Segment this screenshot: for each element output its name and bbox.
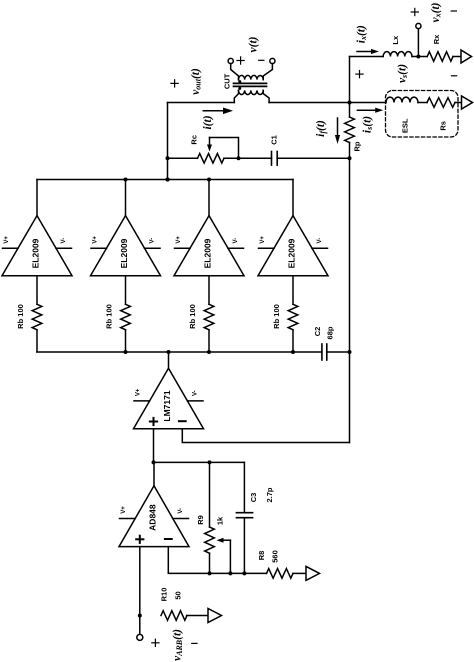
- wire: AD848 inverting input to feedback row: [168, 547, 266, 574]
- op-amp LM7171: [134, 368, 204, 429]
- resistor Rs: [427, 98, 455, 131]
- svg-text:V-: V-: [233, 238, 239, 244]
- wire: Rb2 to lower bus: [125, 330, 127, 352]
- node: row3 left junction: [152, 460, 156, 464]
- capacitor C2 68p: [313, 326, 334, 360]
- svg-text:v(t): v(t): [248, 36, 260, 52]
- capacitor C1: [270, 135, 279, 165]
- wire: left vertical wire from v_out corner down to buffer output bus: [167, 103, 169, 180]
- svg-text:LM7171: LM7171: [162, 390, 172, 421]
- resistor Rp with down arrow i_f(t): [345, 117, 362, 152]
- label v_out(t) with + sign: [171, 68, 203, 95]
- svg-text:2.7p: 2.7p: [265, 487, 274, 502]
- svg-text:V-: V-: [178, 508, 184, 514]
- wire: C1 to right vertical: [277, 157, 349, 159]
- op-amp AD848: [119, 486, 189, 547]
- svg-text:EL2009: EL2009: [31, 238, 41, 268]
- svg-text:Rb 100: Rb 100: [272, 304, 281, 329]
- wire: AD848 non-inverting input lead down to source: [139, 547, 141, 635]
- svg-text:560: 560: [271, 550, 280, 563]
- op-amp U3 EL2009 buffer: [174, 216, 244, 276]
- node: bus junction at left vertical: [166, 178, 170, 182]
- dashed box: ESL speaker model: [386, 91, 459, 138]
- svg-text:C1: C1: [270, 135, 279, 145]
- label v_x(t) with + and -: [411, 2, 456, 22]
- svg-text:C2: C2: [313, 327, 322, 337]
- node: junction main wire / Lx branch / Rp: [348, 101, 352, 105]
- source terminal v_ARB(t): [137, 634, 143, 640]
- svg-text:EL2009: EL2009: [203, 238, 213, 268]
- wire: LM7171 non-inverting input lead: [153, 429, 155, 463]
- svg-text:Lx: Lx: [391, 35, 400, 45]
- node: left vertical / bus junction: [166, 178, 170, 182]
- arrow i_s(t) with label: [357, 108, 383, 133]
- svg-text:vs(t): vs(t): [396, 64, 409, 83]
- svg-text:R9: R9: [196, 515, 205, 525]
- svg-text:ix(t): ix(t): [356, 25, 369, 43]
- wire: main wire from transformer to right node: [269, 102, 349, 104]
- resistor Rb2 100: [105, 304, 131, 330]
- wire: buffer U3 output lead: [208, 180, 210, 216]
- wire: Rb1 to lower bus: [36, 330, 38, 352]
- wire: R9 top lead: [209, 462, 211, 527]
- svg-text:V-: V-: [150, 238, 156, 244]
- ground symbol (R8): [306, 566, 320, 580]
- arrow i(t) with label: [202, 108, 233, 130]
- svg-text:if(t): if(t): [315, 120, 328, 137]
- capacitor C3 2.7p: [236, 462, 274, 573]
- svg-text:Rb 100: Rb 100: [16, 304, 25, 329]
- svg-text:i(t): i(t): [202, 115, 214, 129]
- wire: Rx to ground: [453, 56, 461, 58]
- node: R10 junction: [138, 614, 142, 618]
- wire: ESL to Rs: [418, 102, 427, 104]
- svg-text:Rb 100: Rb 100: [105, 304, 114, 329]
- arrow i_x(t) with label: [356, 25, 380, 54]
- ground symbol (Rs branch): [462, 96, 473, 109]
- svg-text:Rb 100: Rb 100: [188, 304, 197, 329]
- svg-text:V+: V+: [176, 236, 182, 244]
- node: C1 row left junction: [166, 156, 170, 160]
- svg-text:vx(t): vx(t): [430, 2, 443, 22]
- resistor Rb4 100: [272, 304, 298, 330]
- wire: C1 row left lead: [168, 157, 198, 159]
- svg-text:EL2009: EL2009: [119, 238, 129, 268]
- svg-text:1k: 1k: [216, 516, 225, 525]
- resistor R10 50: [160, 588, 188, 621]
- wire: feedback to LM7171 inverting input: [182, 429, 349, 443]
- label v(t) with + and - at transformer secondary: [237, 36, 264, 64]
- node: feedback row junctions: [208, 571, 247, 575]
- svg-text:is(t): is(t): [362, 116, 375, 133]
- op-amp U1 EL2009 buffer: [2, 216, 72, 276]
- transformer CUT: [223, 58, 276, 102]
- wire: main wire into ESL: [350, 102, 387, 104]
- resistor R8 560: [257, 550, 293, 578]
- svg-text:V-: V-: [317, 238, 323, 244]
- svg-text:C3: C3: [249, 493, 258, 503]
- wire: C2 to right vertical: [327, 351, 350, 353]
- wire: interstage row (AD848 output to LM7171 input, R9, C3): [154, 461, 245, 463]
- label v_s(t) with + and -: [356, 64, 457, 83]
- op-amp U4 EL2009 buffer: [258, 216, 328, 276]
- svg-text:EL2009: EL2009: [287, 238, 297, 268]
- wire: R10 to ground: [187, 615, 208, 617]
- resistor Rb3 100: [188, 304, 214, 330]
- wire: buffer U3 input lead: [208, 276, 210, 305]
- svg-text:R10: R10: [160, 588, 169, 602]
- resistor Rx: [427, 34, 453, 61]
- wire: buffer U1 input lead: [36, 276, 38, 305]
- wire: buffer U2 input lead: [125, 276, 127, 305]
- wire: Rp leads: [349, 103, 351, 159]
- wire: Rb3 to lower bus: [208, 330, 210, 352]
- svg-text:V+: V+: [136, 388, 142, 396]
- node: right vertical / C2 junction: [348, 350, 352, 354]
- node: C1 / Rp junction: [348, 156, 352, 160]
- wire: R8 to ground: [293, 572, 306, 574]
- svg-text:68p: 68p: [325, 326, 334, 339]
- svg-text:V+: V+: [4, 236, 10, 244]
- label v_ARB(t) with + and -: [152, 629, 197, 661]
- potentiometer Rc: [190, 135, 239, 163]
- svg-text:Rx: Rx: [432, 34, 441, 44]
- inductor ESL: [386, 97, 418, 133]
- potentiometer R9 1k: [196, 515, 230, 573]
- svg-text:V-: V-: [61, 238, 67, 244]
- wire: Rs to ground: [455, 102, 462, 104]
- wire: Lx to Rx with node stub: [412, 56, 427, 58]
- node: lower bus junctions: [124, 350, 296, 354]
- svg-text:ESL: ESL: [400, 118, 409, 133]
- ground symbol (R10): [208, 609, 222, 623]
- arrow i_f(t) with label: [315, 118, 340, 144]
- svg-text:AD848: AD848: [148, 504, 158, 531]
- node: bus junction at buffer U3: [207, 178, 211, 182]
- svg-text:V+: V+: [121, 506, 127, 514]
- resistor Rb1 100: [16, 304, 42, 330]
- wire: output node horizontal wire from v_out corner to transformer primary: [168, 102, 235, 104]
- wire: buffer U4 output lead: [292, 180, 294, 216]
- wire: AD848 output lead: [153, 462, 155, 485]
- wire: vertical up to Lx branch: [349, 57, 351, 103]
- svg-text:CUT: CUT: [223, 73, 232, 89]
- ground symbol (Rx branch): [461, 50, 472, 63]
- svg-text:Rs: Rs: [438, 121, 447, 131]
- op-amp U2 EL2009 buffer: [91, 216, 161, 276]
- wire: Rb4 to lower bus: [292, 330, 294, 352]
- svg-text:V-: V-: [193, 390, 199, 396]
- svg-text:V+: V+: [260, 236, 266, 244]
- wire: Rc to C1: [224, 157, 272, 159]
- wire: buffer U4 input lead: [292, 276, 294, 305]
- node: sense terminal with open circle: [416, 23, 421, 58]
- inductor Lx: [383, 35, 412, 56]
- svg-text:V+: V+: [93, 236, 99, 244]
- wire: LM7171 output lead: [168, 352, 170, 368]
- svg-text:Rp: Rp: [353, 141, 362, 151]
- node: bus junction at buffer U2: [124, 178, 128, 182]
- node: R9 top junction: [208, 460, 212, 464]
- node: Rc wiper junction: [237, 156, 241, 160]
- wire: R9 bottom lead: [209, 553, 211, 573]
- svg-text:R8: R8: [257, 551, 266, 561]
- wire: buffer U1 output lead: [36, 180, 38, 216]
- wire: buffer output bus: [37, 179, 293, 181]
- wire: buffer U2 output lead: [125, 180, 127, 216]
- svg-text:Rc: Rc: [190, 135, 199, 145]
- wire: lower bus (buffer inputs): [37, 351, 322, 353]
- wire: Lx branch lead: [350, 56, 384, 58]
- svg-text:50: 50: [174, 591, 183, 599]
- wire: right vertical wire C1 row to feedback corner: [349, 158, 351, 442]
